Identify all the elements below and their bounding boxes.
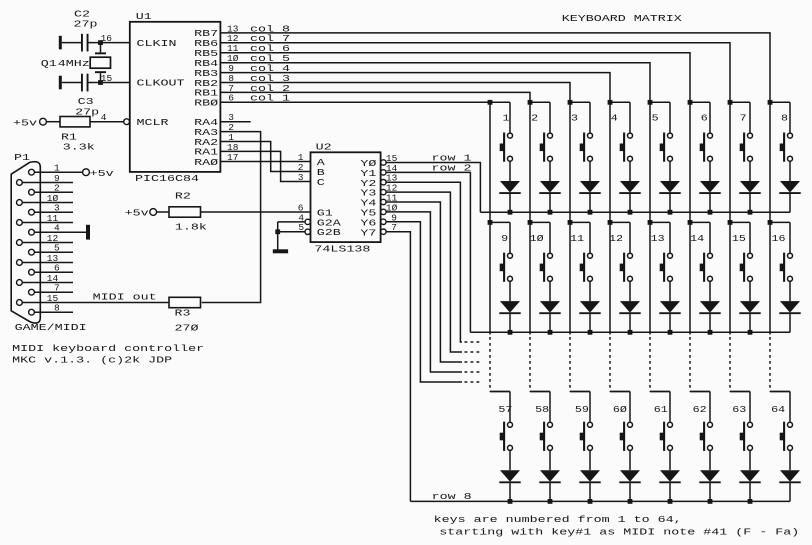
switch S60 (key 60) bbox=[620, 422, 633, 451]
svg-text:4: 4 bbox=[611, 113, 618, 124]
svg-text:13: 13 bbox=[651, 233, 665, 244]
wire P1 pin 14 bbox=[22, 282, 73, 284]
inversion bubble Y1 bbox=[381, 170, 386, 175]
wire switch to diode key 13 bbox=[669, 281, 671, 301]
wire branch key 4 bbox=[610, 101, 630, 103]
junction row1/key 7 bbox=[748, 210, 753, 215]
wire Y1 to row 2 bbox=[386, 172, 470, 332]
P1 pin 4 contact bbox=[29, 229, 35, 235]
P1 pin 10 contact bbox=[17, 200, 23, 206]
wire branch key 8 bbox=[770, 101, 790, 103]
wire branch key 10 bbox=[530, 221, 550, 223]
wire switch to diode key 5 bbox=[669, 161, 671, 181]
svg-text:15: 15 bbox=[101, 73, 113, 84]
dotted col 5 continuation bbox=[649, 337, 651, 392]
diode D9 (key 9) bbox=[499, 301, 520, 313]
wire branch key 57 bbox=[490, 391, 510, 393]
wire col 4 jog to key 60 bbox=[610, 391, 630, 393]
svg-text:RBØ: RBØ bbox=[194, 98, 218, 109]
wire branch key 2 bbox=[530, 101, 550, 103]
wire P1 pin 1 to +5v bbox=[34, 171, 82, 173]
wire switch to diode key 3 bbox=[589, 161, 591, 181]
wire P1 pin 12 bbox=[22, 242, 73, 244]
switch S4 (key 4) bbox=[620, 133, 633, 162]
junction row2/key 12 bbox=[628, 330, 633, 335]
wire col 4 below band 2 bbox=[609, 222, 611, 334]
wire Y0 to row 1 bbox=[386, 163, 480, 213]
wire Y5 (row 6) stub bbox=[386, 212, 462, 372]
wire diode to row line key 57 bbox=[509, 483, 511, 501]
switch S8 (key 8) bbox=[780, 133, 793, 162]
diode D63 (key 63) bbox=[739, 470, 760, 482]
wire RB6 to col 7 bbox=[220, 43, 730, 103]
svg-text:3: 3 bbox=[298, 172, 304, 183]
diode D57 (key 57) bbox=[499, 470, 520, 482]
wire switch to diode key 60 bbox=[629, 450, 631, 470]
junction row8/key 63 bbox=[748, 499, 753, 504]
svg-text:4MHz: 4MHz bbox=[58, 58, 90, 69]
wire to switch key 1 bbox=[509, 102, 511, 133]
svg-text:C: C bbox=[317, 177, 325, 188]
wire crystal bottom bbox=[100, 73, 102, 80]
wire +5v to R2 bbox=[157, 211, 169, 213]
svg-text:PIC16C84: PIC16C84 bbox=[135, 173, 199, 184]
wire col 7 jog to key 63 bbox=[730, 391, 750, 393]
resistor R1 bbox=[60, 117, 90, 127]
wire to switch key 4 bbox=[629, 102, 631, 133]
switch S6 (key 6) bbox=[700, 133, 713, 162]
wire RB2 to col 3 bbox=[220, 83, 570, 103]
wire switch to diode key 59 bbox=[589, 450, 591, 470]
switch S2 (key 2) bbox=[540, 133, 553, 162]
wire branch key 6 bbox=[690, 101, 710, 103]
wire switch to diode key 14 bbox=[709, 281, 711, 301]
diode D60 (key 60) bbox=[619, 470, 640, 482]
capacitor C2 bbox=[81, 34, 89, 52]
svg-text:MIDI keyboard controller: MIDI keyboard controller bbox=[12, 343, 204, 354]
wire to switch key 3 bbox=[589, 102, 591, 133]
wire diode to row line key 1 bbox=[509, 194, 511, 212]
svg-text:6: 6 bbox=[701, 113, 708, 124]
junction row1/key 6 bbox=[708, 210, 713, 215]
switch S61 (key 61) bbox=[660, 422, 673, 451]
diode D10 (key 10) bbox=[539, 301, 560, 313]
wire switch to diode key 8 bbox=[789, 161, 791, 181]
junction row1/key 1 bbox=[508, 210, 513, 215]
diode D16 (key 16) bbox=[779, 301, 800, 313]
switch S10 (key 10) bbox=[540, 253, 553, 282]
ground (C2 left) bbox=[59, 36, 62, 50]
P1 pin 8 contact bbox=[29, 309, 35, 315]
wire to switch key 62 bbox=[709, 392, 711, 423]
inversion bubble MCLR bbox=[124, 119, 130, 125]
wire col 6 jog to key 62 bbox=[690, 391, 710, 393]
junction row1/key 3 bbox=[588, 210, 593, 215]
diode D11 (key 11) bbox=[579, 301, 600, 313]
wire to switch key 7 bbox=[749, 102, 751, 133]
wire P1 pin 3 bbox=[34, 211, 73, 213]
junction row2/key 14 bbox=[708, 330, 713, 335]
switch S9 (key 9) bbox=[500, 253, 513, 282]
dotted continuation row 4 bbox=[465, 351, 483, 353]
wire switch to diode key 2 bbox=[549, 161, 551, 181]
switch S11 (key 11) bbox=[580, 253, 593, 282]
wire ground to C2 bbox=[62, 42, 81, 44]
junction crystal top node bbox=[98, 40, 103, 45]
junction col / key 8 bbox=[768, 100, 773, 105]
junction col / key 6 bbox=[688, 100, 693, 105]
wire switch to diode key 62 bbox=[709, 450, 711, 470]
wire Y3 (row 4) stub bbox=[386, 192, 462, 352]
svg-text:keys are numbered from 1 to 64: keys are numbered from 1 to 64, bbox=[434, 514, 682, 525]
svg-text:11: 11 bbox=[570, 233, 584, 244]
svg-text:4: 4 bbox=[101, 112, 107, 123]
dotted col 1 continuation bbox=[489, 337, 491, 392]
wire RB3 to col 4 bbox=[220, 73, 610, 103]
wire to switch key 60 bbox=[629, 392, 631, 423]
ground (U2 enables) bbox=[273, 249, 288, 253]
wire row 8 line bbox=[410, 500, 790, 502]
wire col 1 vertical bbox=[489, 102, 491, 222]
junction col / key 13 bbox=[648, 220, 653, 225]
wire diode to row line key 61 bbox=[669, 483, 671, 501]
wire switch to diode key 15 bbox=[749, 281, 751, 301]
diode D62 (key 62) bbox=[699, 470, 720, 482]
junction col / key 9 bbox=[488, 220, 493, 225]
wire col 2 jog to key 58 bbox=[530, 391, 550, 393]
wire branch key 7 bbox=[730, 101, 750, 103]
diode D7 (key 7) bbox=[739, 181, 760, 193]
svg-text:+5v: +5v bbox=[13, 117, 37, 128]
junction col / key 5 bbox=[648, 100, 653, 105]
wire to switch key 14 bbox=[709, 222, 711, 253]
wire switch to diode key 10 bbox=[549, 281, 551, 301]
wire diode to row line key 13 bbox=[669, 314, 671, 332]
svg-text:3: 3 bbox=[571, 113, 578, 124]
wire RA4 stub (pin 3) bbox=[220, 121, 250, 123]
svg-text:+5v: +5v bbox=[125, 207, 149, 218]
svg-text:12: 12 bbox=[47, 233, 59, 244]
svg-text:27Ø: 27Ø bbox=[175, 323, 199, 334]
connector P1 GAME/MIDI outline bbox=[11, 162, 40, 323]
switch S59 (key 59) bbox=[580, 422, 593, 451]
svg-text:61: 61 bbox=[654, 404, 668, 415]
terminal +5v bbox=[40, 118, 47, 125]
svg-text:CLKIN: CLKIN bbox=[137, 38, 177, 49]
wire RB1 to col 2 bbox=[220, 92, 530, 102]
svg-text:1Ø: 1Ø bbox=[530, 233, 544, 244]
wire row 1 line bbox=[480, 211, 790, 213]
svg-text:58: 58 bbox=[535, 404, 549, 415]
dotted col 7 continuation bbox=[729, 337, 731, 392]
svg-text:16: 16 bbox=[101, 33, 113, 44]
junction row8/key 61 bbox=[668, 499, 673, 504]
svg-text:64: 64 bbox=[771, 404, 785, 415]
wire branch key 1 bbox=[490, 101, 510, 103]
dotted col 2 continuation bbox=[529, 337, 531, 392]
wire diode to row line key 3 bbox=[589, 194, 591, 212]
IC U2 74LS138 body bbox=[311, 152, 381, 242]
switch S16 (key 16) bbox=[780, 253, 793, 282]
wire to switch key 8 bbox=[789, 102, 791, 133]
svg-text:RAØ: RAØ bbox=[194, 157, 218, 168]
svg-text:1.8k: 1.8k bbox=[175, 222, 207, 233]
wire row 2 line bbox=[470, 331, 790, 333]
wire col 1 below band 2 bbox=[489, 222, 491, 334]
P1 pin 5 contact bbox=[29, 249, 35, 255]
wire R1 to MCLR bbox=[90, 121, 124, 123]
wire RB5 to col 6 bbox=[220, 53, 690, 103]
svg-text:G2B: G2B bbox=[317, 227, 341, 238]
dotted continuation row 5 bbox=[465, 361, 483, 363]
wire to switch key 57 bbox=[509, 392, 511, 423]
svg-text:74LS138: 74LS138 bbox=[314, 244, 370, 255]
wire RA2 to U2 B bbox=[220, 142, 310, 172]
svg-text:12: 12 bbox=[609, 233, 623, 244]
wire col 7 below band 2 bbox=[729, 222, 731, 334]
wire branch key 15 bbox=[730, 221, 750, 223]
junction row8/key 57 bbox=[508, 499, 513, 504]
ground (P1 pin 4) bbox=[86, 225, 90, 240]
svg-text:5: 5 bbox=[652, 113, 659, 124]
wire to switch key 6 bbox=[709, 102, 711, 133]
switch S14 (key 14) bbox=[700, 253, 713, 282]
junction row8/key 59 bbox=[588, 499, 593, 504]
wire diode to row line key 12 bbox=[629, 314, 631, 332]
wire to switch key 5 bbox=[669, 102, 671, 133]
wire switch to diode key 16 bbox=[789, 281, 791, 301]
wire to switch key 58 bbox=[549, 392, 551, 423]
wire P1 pin 9 bbox=[22, 182, 73, 184]
svg-text:1Ø: 1Ø bbox=[47, 193, 59, 204]
svg-text:63: 63 bbox=[732, 404, 746, 415]
wire col 5 jog to key 61 bbox=[650, 391, 670, 393]
svg-text:U2: U2 bbox=[316, 142, 332, 153]
wire P1 pin 7 bbox=[34, 291, 73, 293]
wire diode to row line key 5 bbox=[669, 194, 671, 212]
junction row1/key 5 bbox=[668, 210, 673, 215]
wire Y4 (row 5) stub bbox=[386, 202, 462, 362]
junction col / key 3 bbox=[568, 100, 573, 105]
wire switch to diode key 57 bbox=[509, 450, 511, 470]
junction col / key 11 bbox=[568, 220, 573, 225]
wire to switch key 12 bbox=[629, 222, 631, 253]
wire diode to row line key 58 bbox=[549, 483, 551, 501]
terminal +5v (P1 pin 1) bbox=[83, 169, 90, 176]
svg-text:16: 16 bbox=[772, 233, 786, 244]
wire branch key 62 bbox=[690, 391, 710, 393]
switch S1 (key 1) bbox=[500, 133, 513, 162]
junction col / key 15 bbox=[728, 220, 733, 225]
P1 pin 1 contact bbox=[29, 169, 35, 175]
P1 pin 3 contact bbox=[29, 209, 35, 215]
wire RB7 to col 8 bbox=[220, 33, 770, 102]
svg-text:R3: R3 bbox=[175, 307, 191, 318]
wire RB0 to col 1 bbox=[220, 101, 490, 103]
diode D58 (key 58) bbox=[539, 470, 560, 482]
wire switch to diode key 64 bbox=[789, 450, 791, 470]
wire switch to diode key 12 bbox=[629, 281, 631, 301]
dotted continuation row 7 bbox=[465, 381, 483, 383]
svg-text:MKC v.1.3. (c)2k JDP: MKC v.1.3. (c)2k JDP bbox=[12, 355, 172, 366]
svg-text:9: 9 bbox=[501, 233, 508, 244]
switch S64 (key 64) bbox=[780, 422, 793, 451]
wire branch key 9 bbox=[490, 221, 510, 223]
wire Y2 (row 3) stub bbox=[386, 182, 462, 342]
inversion bubble Y6 bbox=[381, 219, 386, 224]
wire switch to diode key 9 bbox=[509, 281, 511, 301]
inversion bubble G2A bbox=[305, 219, 310, 224]
wire to switch key 64 bbox=[789, 392, 791, 423]
inversion bubble Y3 bbox=[381, 189, 386, 194]
wire to switch key 2 bbox=[549, 102, 551, 133]
junction row8/key 62 bbox=[708, 499, 713, 504]
svg-text:27p: 27p bbox=[74, 18, 98, 29]
svg-text:row 2: row 2 bbox=[432, 163, 472, 174]
diode D64 (key 64) bbox=[779, 470, 800, 482]
switch S12 (key 12) bbox=[620, 253, 633, 282]
wire col 4 vertical bbox=[609, 102, 611, 222]
wire diode to row line key 60 bbox=[629, 483, 631, 501]
wire branch key 61 bbox=[650, 391, 670, 393]
junction col / key 16 bbox=[768, 220, 773, 225]
svg-text:KEYBOARD MATRIX: KEYBOARD MATRIX bbox=[562, 13, 682, 24]
switch S7 (key 7) bbox=[740, 133, 753, 162]
junction col / key 12 bbox=[608, 220, 613, 225]
svg-text:2: 2 bbox=[531, 113, 538, 124]
switch S3 (key 3) bbox=[580, 133, 593, 162]
wire to switch key 16 bbox=[789, 222, 791, 253]
capacitor C3 bbox=[81, 74, 89, 92]
junction row2/key 9 bbox=[508, 330, 513, 335]
P1 pin 2 contact bbox=[29, 189, 35, 195]
junction G2A/G2B bbox=[275, 229, 280, 234]
wire P1 pin 2 bbox=[34, 191, 73, 193]
svg-text:starting with key#1 as MIDI no: starting with key#1 as MIDI note #41 (F … bbox=[439, 527, 799, 538]
wire diode to row line key 15 bbox=[749, 314, 751, 332]
svg-text:Q1: Q1 bbox=[41, 58, 57, 69]
wire RA3 to R3 (MIDI out) bbox=[202, 132, 261, 303]
wire P1 pin 13 bbox=[22, 262, 73, 264]
diode D5 (key 5) bbox=[659, 181, 680, 193]
wire to switch key 59 bbox=[589, 392, 591, 423]
inversion bubble G2B bbox=[305, 229, 310, 234]
wire col 1 jog to key 57 bbox=[490, 391, 510, 393]
switch S58 (key 58) bbox=[540, 422, 553, 451]
inversion bubble Y0 bbox=[381, 160, 386, 165]
wire P1 pin 6 bbox=[34, 271, 73, 273]
wire C2 to CLKIN bbox=[89, 42, 130, 44]
svg-text:Y7: Y7 bbox=[360, 227, 376, 238]
wire ground to C3 bbox=[62, 82, 81, 84]
dotted col 4 continuation bbox=[609, 337, 611, 392]
svg-text:13: 13 bbox=[47, 253, 59, 264]
wire col 3 jog to key 59 bbox=[570, 391, 590, 393]
dotted continuation row 6 bbox=[465, 371, 483, 373]
svg-text:3.3k: 3.3k bbox=[63, 142, 95, 153]
inversion bubble Y7 bbox=[381, 229, 386, 234]
wire Y6 (row 7) stub bbox=[386, 222, 462, 382]
diode D61 (key 61) bbox=[659, 470, 680, 482]
svg-text:8: 8 bbox=[781, 113, 788, 124]
wire G2A bbox=[278, 221, 305, 223]
wire P1 pin 4 to ground bbox=[34, 231, 86, 233]
wire to ground bbox=[277, 222, 279, 250]
wire diode to row line key 62 bbox=[709, 483, 711, 501]
junction row2/key 13 bbox=[668, 330, 673, 335]
wire switch to diode key 4 bbox=[629, 161, 631, 181]
wire diode to row line key 9 bbox=[509, 314, 511, 332]
switch S13 (key 13) bbox=[660, 253, 673, 282]
wire diode to row line key 8 bbox=[789, 194, 791, 212]
wire diode to row line key 2 bbox=[549, 194, 551, 212]
inversion bubble Y4 bbox=[381, 199, 386, 204]
wire branch key 5 bbox=[650, 101, 670, 103]
wire switch to diode key 1 bbox=[509, 161, 511, 181]
svg-text:14: 14 bbox=[690, 233, 704, 244]
wire branch key 13 bbox=[650, 221, 670, 223]
junction col / key 2 bbox=[528, 100, 533, 105]
junction row8/key 60 bbox=[628, 499, 633, 504]
switch S57 (key 57) bbox=[500, 422, 513, 451]
svg-text:15: 15 bbox=[47, 293, 59, 304]
wire branch key 14 bbox=[690, 221, 710, 223]
switch S15 (key 15) bbox=[740, 253, 753, 282]
wire to switch key 13 bbox=[669, 222, 671, 253]
wire branch key 12 bbox=[610, 221, 630, 223]
P1 pin 9 contact bbox=[17, 180, 23, 186]
dotted col 6 continuation bbox=[689, 337, 691, 392]
wire branch key 3 bbox=[570, 101, 590, 103]
svg-text:11: 11 bbox=[47, 213, 59, 224]
dotted col 3 continuation bbox=[569, 337, 571, 392]
wire col 3 below band 2 bbox=[569, 222, 571, 334]
wire RB4 to col 5 bbox=[220, 63, 650, 103]
wire Y7 to row 8 bbox=[386, 232, 410, 502]
diode D6 (key 6) bbox=[699, 181, 720, 193]
wire col 5 vertical bbox=[649, 102, 651, 222]
wire col 6 vertical bbox=[689, 102, 691, 222]
wire col 8 jog to key 64 bbox=[770, 391, 790, 393]
wire branch key 64 bbox=[770, 391, 790, 393]
svg-text:MCLR: MCLR bbox=[137, 117, 169, 128]
svg-text:U1: U1 bbox=[136, 11, 152, 22]
switch S63 (key 63) bbox=[740, 422, 753, 451]
diode D8 (key 8) bbox=[779, 181, 800, 193]
svg-text:7: 7 bbox=[740, 113, 747, 124]
diode D59 (key 59) bbox=[579, 470, 600, 482]
wire diode to row line key 10 bbox=[549, 314, 551, 332]
wire branch key 59 bbox=[570, 391, 590, 393]
P1 pin 13 contact bbox=[17, 260, 23, 266]
wire P1 pin 5 bbox=[34, 251, 73, 253]
wire C3 to CLKOUT bbox=[89, 82, 130, 84]
svg-text:6Ø: 6Ø bbox=[613, 404, 627, 415]
P1 pin 7 contact bbox=[29, 289, 35, 295]
wire to switch key 61 bbox=[669, 392, 671, 423]
svg-text:8: 8 bbox=[54, 303, 60, 314]
svg-text:row 8: row 8 bbox=[432, 491, 472, 502]
svg-text:9: 9 bbox=[54, 173, 60, 184]
wire switch to diode key 58 bbox=[549, 450, 551, 470]
wire diode to row line key 4 bbox=[629, 194, 631, 212]
diode D1 (key 1) bbox=[499, 181, 520, 193]
diode D2 (key 2) bbox=[539, 181, 560, 193]
wire to switch key 10 bbox=[549, 222, 551, 253]
wire RA1 to U2 C bbox=[220, 151, 310, 181]
wire col 6 below band 2 bbox=[689, 222, 691, 334]
IC U1 PIC16C84 body bbox=[130, 22, 221, 172]
